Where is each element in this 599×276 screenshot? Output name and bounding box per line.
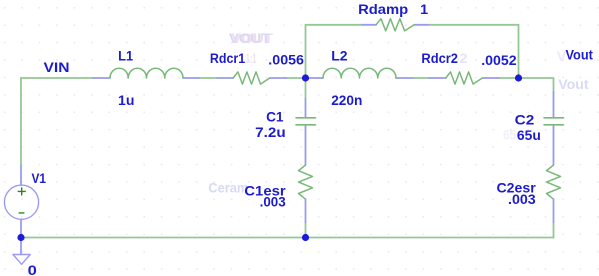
junction node N1 <box>302 74 309 81</box>
junction node Vout <box>515 74 522 81</box>
svg-text:7.2u: 7.2u <box>255 125 286 141</box>
inductor L1 <box>110 68 183 78</box>
svg-text:.003: .003 <box>508 192 536 208</box>
wire Rdcr2 to node Vout <box>499 77 519 79</box>
wire damp branch top left <box>306 24 363 26</box>
svg-text:C2: C2 <box>515 113 535 129</box>
svg-text:.003: .003 <box>260 195 286 211</box>
inductor L1 pins <box>94 77 200 79</box>
resistor C1esr pin <box>305 199 307 222</box>
svg-text:L1: L1 <box>118 48 133 64</box>
resistor Rdamp <box>376 19 414 31</box>
wire bottom rail <box>21 237 554 239</box>
resistor Rdcr2 pins <box>429 77 499 79</box>
svg-text:220n: 220n <box>331 93 362 109</box>
junction node ground-left <box>17 234 24 241</box>
wire L1 to Rdcr1 <box>199 77 217 79</box>
wire Vout to right column <box>519 78 554 92</box>
svg-text:V1: V1 <box>32 171 47 187</box>
svg-text:2: 2 <box>460 51 468 67</box>
wire damp branch left vertical <box>305 25 307 78</box>
svg-text:Rdcr2: Rdcr2 <box>421 51 458 67</box>
ground pin <box>20 240 22 255</box>
svg-text:VOUT: VOUT <box>229 31 271 47</box>
voltage source V1 minus mark <box>19 212 24 214</box>
wire damp branch top right <box>428 24 518 26</box>
resistor Rdcr1 pins <box>217 77 287 79</box>
wire damp branch right vertical <box>518 25 520 78</box>
svg-text:VIN: VIN <box>44 60 70 76</box>
wire node N1 down to C1 <box>305 78 307 99</box>
svg-text:C1: C1 <box>266 110 284 126</box>
ground symbol <box>13 255 30 265</box>
voltage source V1 pins <box>20 166 22 236</box>
voltage source V1 plus mark <box>18 188 25 195</box>
wire C1esr to bottom rail <box>305 222 307 237</box>
voltage source V1 body <box>4 185 38 219</box>
resistor C2esr pin <box>553 199 555 222</box>
resistor Rdamp pins <box>362 24 428 26</box>
inductor L2 pins <box>306 77 413 79</box>
svg-text:1: 1 <box>420 2 428 18</box>
wire L2 to Rdcr2 <box>413 77 430 79</box>
junction node ground-mid <box>302 234 309 241</box>
svg-text:Ceram: Ceram <box>208 181 248 197</box>
inductor L2 <box>323 68 396 78</box>
capacitor C2 <box>544 118 564 125</box>
resistor Rdcr2 <box>446 72 483 84</box>
svg-text:0: 0 <box>28 263 37 276</box>
svg-text:1u: 1u <box>118 93 134 109</box>
svg-text:L2: L2 <box>331 48 347 64</box>
svg-text:65u: 65u <box>517 128 541 144</box>
svg-text:1:1: 1:1 <box>246 51 257 67</box>
svg-text:65: 65 <box>503 128 516 144</box>
svg-text:Rdcr1: Rdcr1 <box>210 51 245 67</box>
svg-text:Vout: Vout <box>566 48 594 64</box>
wire Rdcr1 to node N1 <box>287 77 306 79</box>
wire VIN rail <box>21 77 94 79</box>
svg-text:Vout: Vout <box>558 77 589 93</box>
resistor Rdcr1 <box>233 72 270 84</box>
svg-text:.0056: .0056 <box>268 52 304 68</box>
capacitor C1 <box>296 118 316 125</box>
wire C2esr to bottom rail <box>553 222 555 237</box>
svg-text:Rdamp: Rdamp <box>358 2 408 18</box>
capacitor C2 pins <box>553 92 555 165</box>
wire left vertical <box>20 78 22 166</box>
capacitor C1 pins <box>305 99 307 165</box>
svg-text:.0052: .0052 <box>481 53 516 69</box>
resistor C2esr <box>547 165 561 199</box>
resistor C1esr <box>299 165 313 199</box>
